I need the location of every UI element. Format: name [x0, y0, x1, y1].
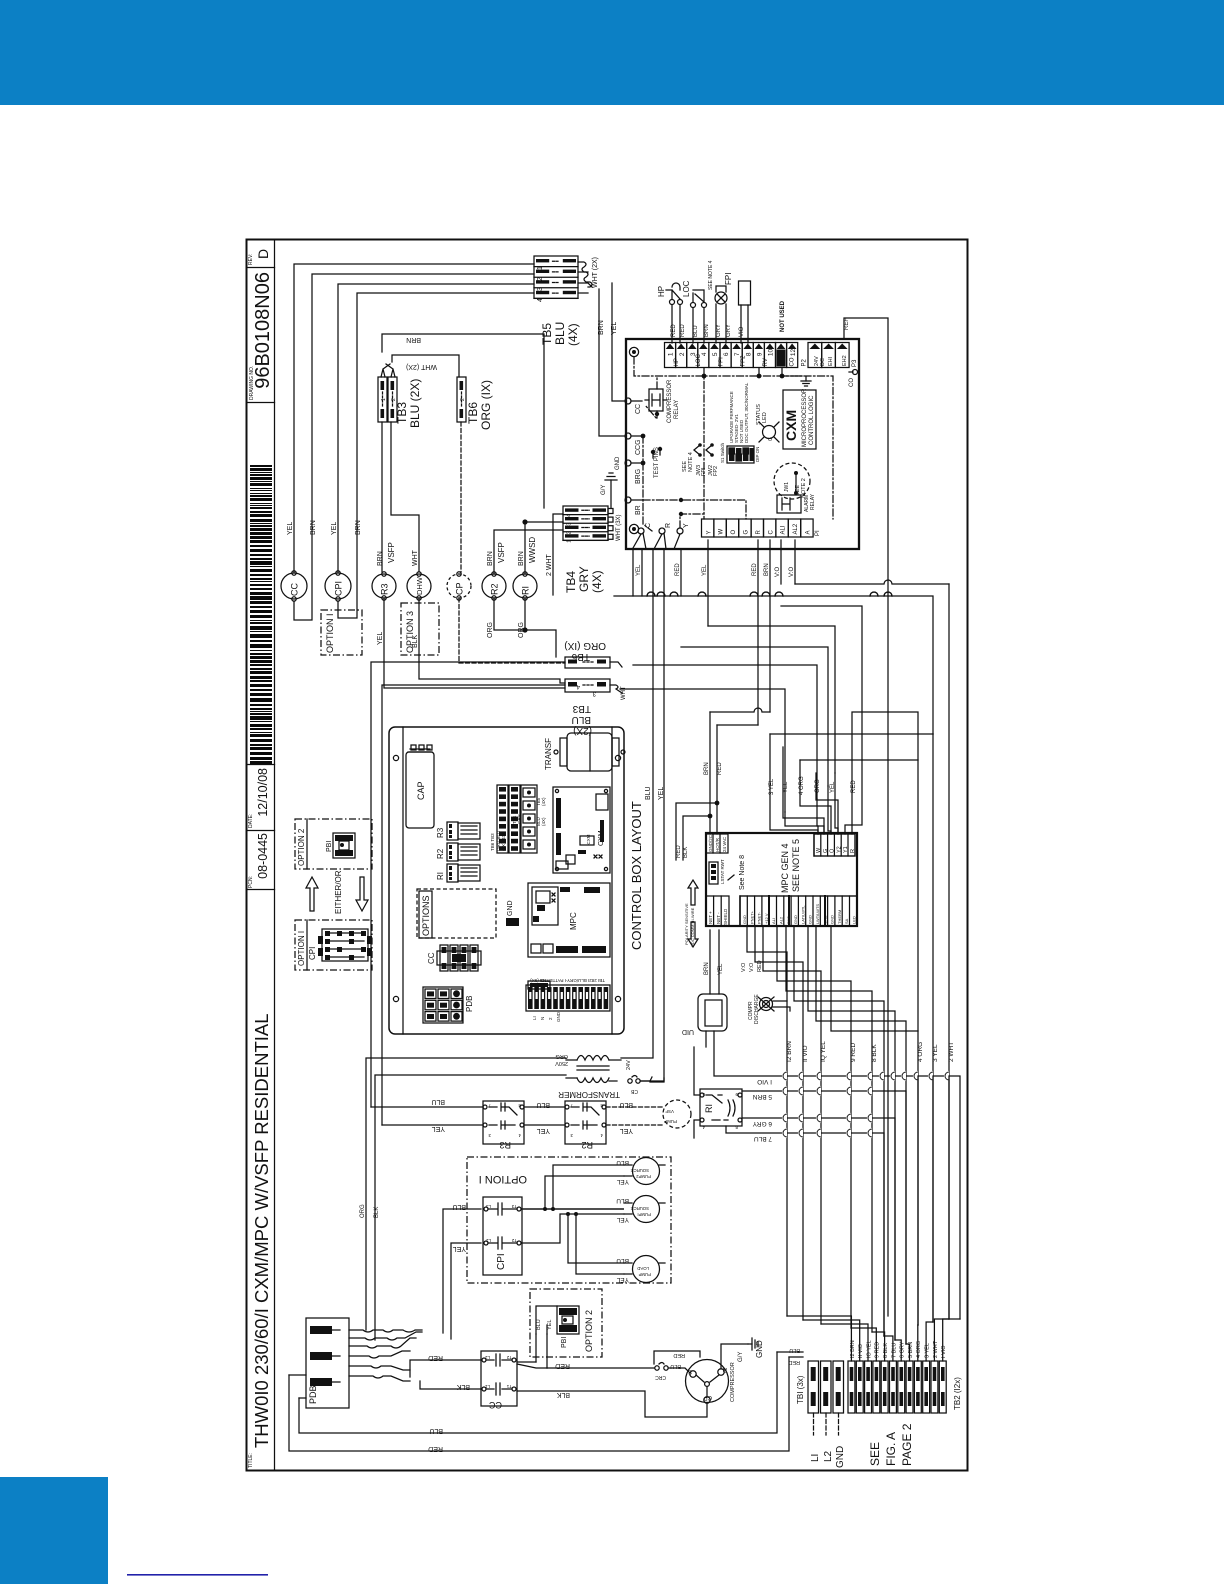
svg-text:TRANSFORMER: TRANSFORMER — [558, 1090, 620, 1099]
screw bottom-left — [629, 524, 638, 533]
svg-text:1: 1 — [537, 266, 544, 270]
svg-text:GND: GND — [742, 915, 747, 924]
svg-text:RED: RED — [752, 563, 758, 576]
svg-text:RELAY: RELAY — [674, 400, 680, 419]
option 1 dashed box (top) — [321, 610, 362, 655]
svg-text:YEL: YEL — [331, 522, 338, 535]
svg-text:GND: GND — [615, 456, 621, 470]
svg-text:T2: T2 — [511, 1238, 517, 1243]
wire YEL TB5 to CXM CC — [612, 283, 626, 401]
wire 2 WHT from TB4 — [553, 514, 563, 595]
svg-text:OPTION I: OPTION I — [479, 1173, 527, 1185]
svg-text:BRN: BRN — [704, 324, 710, 337]
wire CPI brown to TB5 — [338, 293, 534, 618]
svg-text:WHT (3X): WHT (3X) — [616, 514, 622, 541]
svg-text:R2: R2 — [489, 583, 499, 595]
pump source pump2 — [633, 1158, 660, 1185]
wires TB3h/TB6h left to lower verticals — [382, 685, 565, 1125]
header bar — [0, 0, 1224, 105]
svg-text:DISCHARGE: DISCHARGE — [754, 994, 760, 1024]
top-left cells — [706, 834, 728, 853]
svg-text:BLK: BLK — [456, 1383, 470, 1390]
sensor FP2 box — [739, 281, 751, 343]
svg-text:CCG: CCG — [635, 439, 642, 455]
svg-text:(4X): (4X) — [566, 323, 580, 346]
pump load pump — [633, 1256, 660, 1283]
footer blue block — [0, 1477, 108, 1584]
MPC left cells — [706, 896, 729, 926]
relay R3 bottom — [483, 1101, 524, 1150]
svg-text:VIO: VIO — [739, 326, 745, 337]
svg-text:6: 6 — [723, 352, 730, 356]
switch LOC — [682, 280, 710, 343]
svg-text:R3: R3 — [499, 1140, 511, 1150]
BRN RED wires to MPC top — [710, 708, 770, 712]
svg-text:EH2: EH2 — [842, 355, 848, 366]
svg-text:ALI: ALI — [771, 918, 776, 924]
svg-text:PDB: PDB — [465, 996, 474, 1012]
CPI component mid — [318, 929, 372, 961]
svg-text:CXM: CXM — [586, 834, 591, 844]
wire CC T2 RED to CRC — [517, 1362, 654, 1368]
svg-text:4: 4 — [567, 514, 573, 517]
svg-text:WHT: WHT — [412, 549, 419, 566]
svg-text:FPI: FPI — [718, 357, 724, 367]
TB3 horizontal block — [565, 679, 610, 692]
svg-text:BLU: BLU — [553, 322, 567, 345]
svg-text:GND: GND — [830, 915, 835, 924]
CXM board in layout — [553, 787, 610, 873]
svg-text:WHT: WHT — [621, 686, 627, 700]
svg-text:THERM: THERM — [837, 910, 842, 924]
PDB block in layout — [423, 987, 474, 1023]
option 2 box bottom — [530, 1289, 602, 1357]
svg-text:9: 9 — [756, 352, 763, 356]
svg-text:COMPRESSOR: COMPRESSOR — [667, 379, 673, 423]
svg-text:BLU: BLU — [429, 1427, 443, 1434]
right cells W G O Y2 Y1 R — [814, 834, 855, 856]
svg-text:YEL: YEL — [611, 322, 618, 335]
svg-text:(4X): (4X) — [590, 570, 604, 593]
svg-text:UID: UID — [682, 1028, 694, 1035]
drawing frame — [247, 240, 968, 1471]
svg-text:R3: R3 — [379, 583, 389, 595]
svg-text:DDC OUTPUT, 30C/NORMAL: DDC OUTPUT, 30C/NORMAL — [744, 382, 749, 443]
svg-text:FP2: FP2 — [713, 466, 719, 476]
svg-text:IQ YEL: IQ YEL — [820, 1041, 827, 1062]
svg-text:JW1: JW1 — [784, 482, 790, 492]
svg-text:7 BLU: 7 BLU — [754, 1135, 772, 1142]
terminal BR — [625, 497, 631, 503]
svg-text:(4X): (4X) — [541, 817, 546, 826]
svg-text:PUMP: PUMP — [664, 1119, 677, 1124]
screw top-left — [629, 347, 638, 356]
svg-text:CP: CP — [454, 582, 464, 595]
CPI contactor bottom — [483, 1197, 522, 1275]
svg-text:NET +: NET + — [708, 911, 713, 924]
option 1 box bottom — [467, 1157, 671, 1283]
pump source pump1 — [633, 1196, 660, 1223]
component R2 circle — [482, 574, 506, 598]
svg-text:2: 2 — [567, 531, 573, 534]
svg-text:BR: BR — [635, 505, 642, 515]
wire R2 ORG to TB6h — [494, 598, 523, 630]
wire CC yellow to TB5 — [294, 264, 534, 572]
svg-text:12/10/08: 12/10/08 — [256, 768, 270, 817]
svg-text:RELAY: RELAY — [810, 493, 816, 510]
svg-text:RED: RED — [428, 1354, 443, 1361]
svg-text:LOC: LOC — [696, 353, 702, 366]
svg-text:CC: CC — [489, 1400, 502, 1410]
svg-text:C: C — [645, 523, 652, 528]
svg-text:2: 2 — [537, 277, 544, 281]
svg-text:BRN: BRN — [598, 320, 605, 335]
svg-text:RED: RED — [717, 762, 723, 775]
svg-text:BLU: BLU — [431, 1098, 445, 1105]
footer link underline — [127, 1574, 268, 1576]
barcode — [250, 465, 272, 764]
svg-text:BRN: BRN — [704, 962, 710, 975]
svg-text:LI: LI — [810, 1454, 821, 1462]
svg-text:O: O — [731, 530, 737, 535]
svg-text:L2: L2 — [484, 1355, 490, 1360]
svg-text:YEL: YEL — [547, 1320, 553, 1330]
svg-text:W: W — [719, 529, 725, 535]
svg-text:RED: RED — [788, 1359, 800, 1365]
svg-text:24V: 24V — [626, 1060, 632, 1070]
svg-text:CC: CC — [635, 404, 642, 414]
svg-text:BLU: BLU — [619, 1101, 633, 1108]
svg-text:CO: CO — [789, 357, 795, 366]
PBI component mid — [326, 833, 355, 858]
svg-text:TB3: TB3 — [395, 402, 409, 424]
svg-text:GND: GND — [755, 1340, 764, 1358]
relay R2 bottom — [565, 1101, 606, 1150]
svg-text:BLU: BLU — [452, 1203, 466, 1210]
svg-text:POLARITY SENSITIVE: POLARITY SENSITIVE — [684, 903, 689, 945]
svg-text:ORG: ORG — [360, 1204, 366, 1218]
svg-text:RED: RED — [757, 960, 763, 972]
component RI circle — [513, 574, 537, 598]
svg-text:08-0445: 08-0445 — [256, 833, 270, 879]
svg-text:DHW: DHW — [415, 576, 424, 595]
compressor relay — [649, 389, 663, 411]
svg-text:RED: RED — [675, 563, 681, 576]
wire CP dashed to TB6h — [459, 598, 565, 663]
transf component — [567, 733, 612, 771]
svg-text:WHT (2X): WHT (2X) — [406, 363, 437, 370]
wire RED top to compressor R — [654, 1351, 700, 1364]
terminals C R Y — [638, 528, 644, 534]
staircase into MPC right cells — [770, 734, 818, 834]
svg-text:T2: T2 — [506, 1355, 512, 1360]
svg-text:1: 1 — [668, 352, 675, 356]
svg-text:P2: P2 — [802, 358, 808, 366]
GND near TB4 — [610, 480, 612, 508]
svg-text:T3: T3 — [511, 1204, 517, 1209]
svg-text:TB6: TB6 — [571, 651, 590, 662]
svg-text:BRN: BRN — [310, 520, 317, 535]
svg-text:TITLE:: TITLE: — [248, 1453, 254, 1468]
status LED — [763, 426, 776, 439]
svg-text:V:O: V:O — [749, 962, 755, 972]
svg-text:C: C — [768, 530, 774, 535]
svg-text:L2: L2 — [823, 1450, 834, 1462]
svg-text:GND: GND — [835, 1446, 846, 1468]
svg-text:GND: GND — [793, 915, 798, 924]
wire DHW bottom BLK to TB3h — [419, 598, 565, 683]
TB6 horizontal block — [565, 657, 610, 668]
svg-text:YEL: YEL — [620, 1127, 633, 1134]
terminal strip P2 — [808, 343, 822, 368]
wire CC T1 BLK to compressor C — [517, 1391, 707, 1417]
svg-text:BLU: BLU — [536, 1101, 550, 1108]
alarm relay dashed circle — [774, 463, 810, 499]
svg-text:GRY: GRY — [517, 814, 522, 824]
svg-text:CP: CP — [704, 1394, 712, 1400]
svg-text:TB3: TB3 — [572, 703, 591, 714]
terminal CO circle right — [849, 371, 853, 373]
svg-text:LED: LED — [852, 916, 857, 924]
svg-text:OPTION I: OPTION I — [325, 613, 335, 653]
svg-text:LED: LED — [762, 412, 768, 423]
svg-text:HP: HP — [657, 286, 666, 297]
svg-text:CPI: CPI — [333, 581, 343, 596]
svg-text:6 GRY: 6 GRY — [752, 1120, 772, 1127]
svg-text:OPTIONS: OPTIONS — [421, 895, 431, 936]
svg-text:PNET-: PNET- — [757, 912, 762, 924]
svg-text:L3: L3 — [485, 1204, 491, 1209]
svg-text:CPI: CPI — [308, 947, 317, 960]
svg-text:RED: RED — [673, 1352, 685, 1358]
RI row wires — [705, 1031, 707, 1047]
svg-text:TB2 (I2x): TB2 (I2x) — [953, 1377, 962, 1410]
svg-text:SEE: SEE — [868, 1442, 882, 1466]
wire WHT from TB3 fork right — [392, 355, 459, 377]
L1 L2 GND leads — [814, 1413, 839, 1435]
terminal CC — [625, 398, 631, 404]
svg-text:P3: P3 — [852, 359, 858, 367]
dash-dot bus inside CXM — [634, 357, 833, 519]
terminal CCG — [625, 433, 631, 439]
svg-text:R2: R2 — [436, 848, 445, 859]
svg-text:COMPRESSOR: COMPRESSOR — [730, 1362, 736, 1402]
svg-text:EITHER/OR: EITHER/OR — [334, 870, 343, 914]
svg-text:7 BLU: 7 BLU — [891, 1343, 897, 1358]
svg-text:D: D — [255, 249, 271, 259]
option 2 dashed box mid-left — [295, 819, 372, 869]
svg-text:LI: LI — [532, 1016, 537, 1020]
svg-text:I2 BRN: I2 BRN — [786, 1041, 793, 1062]
cap component — [406, 752, 434, 828]
svg-text:BRN: BRN — [355, 520, 362, 535]
svg-text:SA: SA — [844, 918, 849, 924]
svg-text:LOC: LOC — [682, 280, 691, 297]
svg-text:BRN: BRN — [377, 551, 384, 566]
TB3 terminal block (2X) — [378, 377, 387, 422]
svg-text:BRN: BRN — [487, 551, 494, 566]
svg-text:2 WHT: 2 WHT — [546, 554, 553, 577]
svg-text:5: 5 — [712, 352, 719, 356]
PDB zigzag bundle — [349, 1330, 422, 1332]
horizontal runs to right bus — [795, 580, 949, 584]
svg-text:MPC: MPC — [569, 912, 578, 930]
svg-text:R3: R3 — [436, 827, 445, 838]
wires into CPI — [443, 1209, 481, 1333]
svg-text:10: 10 — [768, 348, 775, 356]
svg-text:DIP ON: DIP ON — [755, 447, 760, 462]
svg-text:MICROPROCESSOR: MICROPROCESSOR — [802, 388, 808, 447]
relay module R3 — [436, 822, 480, 840]
svg-text:A: A — [806, 530, 812, 534]
svg-text:GND/2C: GND/2C — [708, 834, 713, 852]
svg-text:250V: 250V — [555, 1060, 568, 1066]
svg-text:RI: RI — [520, 586, 530, 595]
svg-text:RED: RED — [671, 324, 677, 337]
svg-text:CB: CB — [630, 1088, 638, 1094]
svg-text:TB6: TB6 — [466, 402, 480, 424]
svg-text:L1: L1 — [484, 1384, 490, 1389]
svg-text:YEL: YEL — [537, 1127, 550, 1134]
layout terminal columns — [497, 785, 508, 853]
svg-text:G: G — [744, 530, 750, 535]
CC contactor bottom — [481, 1351, 517, 1410]
svg-text:(4X): (4X) — [541, 797, 546, 806]
svg-text:YEL: YEL — [432, 1125, 445, 1132]
svg-text:TEST PINS: TEST PINS — [654, 447, 660, 478]
svg-text:GND: GND — [556, 1011, 561, 1022]
svg-text:PBI: PBI — [326, 841, 333, 852]
sensor FP1 — [708, 260, 733, 343]
svg-text:PI: PI — [815, 530, 821, 536]
svg-text:BLK: BLK — [412, 634, 419, 648]
svg-text:PUMPI: PUMPI — [637, 1212, 651, 1217]
svg-text:YEL: YEL — [616, 1276, 629, 1283]
svg-text:YEL: YEL — [718, 963, 724, 975]
wire RED into CC — [410, 1360, 481, 1377]
svg-text:II VIO: II VIO — [858, 1343, 864, 1358]
hop marks — [647, 592, 655, 596]
PBI bottom — [557, 1306, 579, 1348]
lstat connector — [709, 862, 718, 884]
svg-text:SOURCE: SOURCE — [630, 1168, 649, 1173]
TB1 terminal strip — [796, 1361, 844, 1413]
svg-text:I VIO: I VIO — [757, 1078, 772, 1085]
svg-text:3: 3 — [537, 287, 544, 291]
wire TB3 col2 down to DHW circle — [391, 422, 419, 572]
terminal strip P1 top — [665, 343, 676, 368]
svg-text:9 RED: 9 RED — [875, 1342, 881, 1358]
right bus vertical wires — [948, 584, 950, 1319]
svg-text:II VIO: II VIO — [802, 1045, 809, 1062]
svg-text:3: 3 — [567, 523, 573, 526]
svg-text:NOT USED: NOT USED — [780, 300, 786, 332]
svg-text:S: S — [688, 1368, 692, 1374]
svg-text:BLU: BLU — [670, 1363, 681, 1369]
svg-text:See Note 8: See Note 8 — [739, 855, 746, 890]
svg-text:GRY: GRY — [716, 324, 722, 337]
svg-text:VSF: VSF — [665, 1109, 674, 1114]
svg-text:IO YEL: IO YEL — [866, 1340, 872, 1358]
svg-text:PUMP: PUMP — [638, 1272, 651, 1277]
svg-text:PAGE 2: PAGE 2 — [900, 1423, 914, 1466]
wire CPI yellow to TB5 — [338, 284, 534, 572]
svg-text:SOURCE: SOURCE — [630, 1206, 649, 1211]
svg-text:PNET+: PNET+ — [749, 910, 754, 924]
TB6 terminal block (1X) — [457, 377, 466, 422]
svg-text:1: 1 — [381, 398, 387, 401]
svg-text:REF: REF — [844, 318, 850, 330]
svg-text:V:O: V:O — [775, 567, 781, 577]
MPC board in layout — [528, 883, 610, 957]
PDB power distribution block — [306, 1318, 349, 1408]
svg-text:12: 12 — [790, 348, 797, 356]
svg-text:PUMP2: PUMP2 — [636, 1174, 651, 1179]
component CP circle (dashed) — [447, 574, 471, 598]
svg-text:CONTROL LOGIC: CONTROL LOGIC — [809, 395, 815, 445]
svg-text:4 ORG: 4 ORG — [917, 1042, 924, 1062]
svg-text:ORG (IX): ORG (IX) — [479, 380, 493, 430]
svg-text:ORG (IX): ORG (IX) — [564, 640, 606, 651]
svg-text:BRN: BRN — [518, 551, 525, 566]
svg-text:WHT (2X): WHT (2X) — [592, 257, 599, 288]
svg-text:R2: R2 — [581, 1140, 593, 1150]
svg-text:RI: RI — [704, 1104, 714, 1113]
wire BLK into CC — [420, 1381, 481, 1389]
dashed wires to VSF pump — [606, 1106, 663, 1108]
svg-text:CAP: CAP — [416, 781, 426, 800]
wires between R3 and R2 — [524, 1106, 565, 1108]
TB1 TB2 strip in layout — [526, 978, 610, 1022]
svg-text:RED: RED — [676, 845, 682, 858]
svg-text:YEL: YEL — [702, 564, 708, 576]
svg-text:1: 1 — [567, 540, 573, 543]
svg-text:DATE:: DATE: — [248, 814, 254, 828]
either/or arrows — [306, 870, 368, 914]
svg-text:5 BRN: 5 BRN — [753, 1093, 772, 1100]
polarity arrows — [684, 880, 698, 947]
CPI to pumps wiring — [522, 1208, 624, 1210]
svg-text:TB4: TB4 — [564, 571, 578, 593]
svg-text:BLU: BLU — [572, 714, 591, 725]
terminal BRG — [625, 460, 631, 466]
wires ORG BLK to PDB — [366, 1058, 566, 1330]
svg-text:2: 2 — [391, 398, 397, 401]
svg-text:MPC GEN 4: MPC GEN 4 — [780, 843, 790, 893]
svg-text:REV:: REV: — [248, 254, 254, 265]
svg-text:BLK: BLK — [556, 1391, 570, 1398]
svg-text:T1: T1 — [506, 1384, 512, 1389]
svg-text:RED: RED — [680, 324, 686, 337]
TB2 terminal strip — [848, 1361, 962, 1413]
dip switch — [727, 446, 754, 463]
svg-text:AL2: AL2 — [793, 523, 799, 534]
wire REF to right bus — [844, 318, 888, 1316]
svg-text:LSTAT RWT: LSTAT RWT — [720, 859, 725, 884]
transformer bottom — [555, 1053, 664, 1099]
svg-text:S1 Switch: S1 Switch — [720, 442, 725, 463]
CC contactor in layout — [427, 945, 481, 971]
component R3 circle — [372, 574, 396, 598]
svg-text:4 ORG: 4 ORG — [916, 1341, 922, 1358]
relay module R2 — [436, 843, 480, 861]
svg-text:FP2: FP2 — [741, 355, 747, 367]
wire BRN TB5 to CXM CCG — [599, 289, 626, 436]
svg-text:CC: CC — [289, 583, 299, 596]
svg-text:BLK: BLK — [374, 1207, 380, 1218]
svg-text:RED: RED — [851, 780, 857, 793]
svg-text:R: R — [756, 530, 762, 535]
